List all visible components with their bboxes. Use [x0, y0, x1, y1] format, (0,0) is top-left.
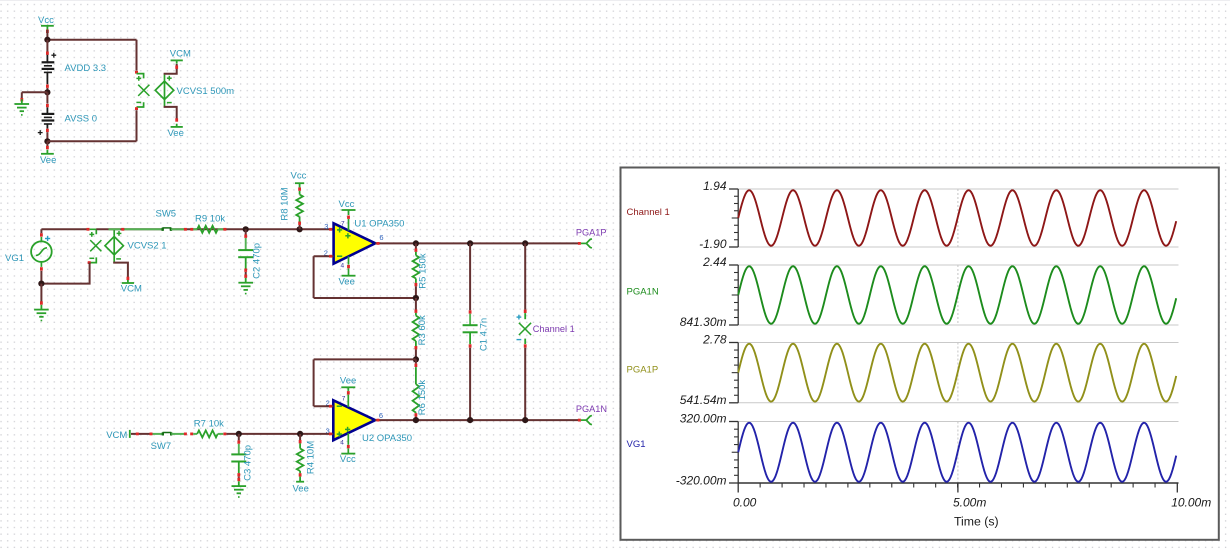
svg-text:PGA1P: PGA1P — [576, 228, 607, 238]
svg-text:VCVS2 1: VCVS2 1 — [128, 240, 167, 251]
svg-text:Channel 1: Channel 1 — [627, 207, 670, 218]
svg-text:Vcc: Vcc — [340, 454, 356, 465]
svg-text:VG1: VG1 — [627, 439, 646, 450]
svg-text:Vee: Vee — [339, 276, 355, 287]
svg-text:7: 7 — [341, 220, 345, 227]
svg-text:R8 10M: R8 10M — [280, 187, 291, 220]
svg-text:Vcc: Vcc — [38, 15, 54, 26]
svg-text:VG1: VG1 — [5, 253, 24, 264]
svg-text:VCM: VCM — [106, 430, 127, 441]
svg-text:0.00: 0.00 — [733, 495, 757, 509]
svg-text:1.94: 1.94 — [703, 179, 727, 193]
svg-text:541.54m: 541.54m — [680, 393, 727, 407]
svg-text:Vcc: Vcc — [291, 170, 307, 181]
svg-text:Channel 1: Channel 1 — [533, 324, 575, 334]
svg-text:PGA1P: PGA1P — [627, 365, 659, 376]
svg-text:Vcc: Vcc — [339, 199, 355, 210]
svg-text:U1 OPA350: U1 OPA350 — [354, 218, 404, 229]
svg-text:U2 OPA350: U2 OPA350 — [362, 433, 412, 444]
svg-text:5.00m: 5.00m — [953, 495, 986, 509]
svg-text:R6 150k: R6 150k — [417, 380, 428, 416]
svg-text:C3 470p: C3 470p — [242, 445, 253, 481]
svg-text:Time (s): Time (s) — [954, 515, 999, 529]
svg-text:VCVS1 500m: VCVS1 500m — [177, 86, 235, 97]
svg-text:-320.00m: -320.00m — [676, 473, 727, 487]
svg-text:4: 4 — [340, 440, 344, 447]
svg-text:2.44: 2.44 — [702, 255, 727, 269]
svg-text:R7 10k: R7 10k — [194, 418, 224, 429]
svg-text:6: 6 — [379, 411, 383, 420]
svg-text:R5 150k: R5 150k — [418, 253, 429, 289]
svg-text:VCM: VCM — [170, 48, 191, 59]
svg-text:C2 470p: C2 470p — [252, 243, 263, 279]
svg-text:SW7: SW7 — [151, 441, 172, 452]
svg-text:2.78: 2.78 — [702, 333, 727, 347]
svg-text:4: 4 — [341, 263, 345, 270]
svg-text:R3 60k: R3 60k — [417, 315, 428, 345]
svg-text:AVDD 3.3: AVDD 3.3 — [65, 63, 107, 74]
svg-text:7: 7 — [342, 396, 346, 403]
svg-text:3: 3 — [324, 222, 328, 231]
svg-text:Vee: Vee — [40, 155, 56, 166]
svg-text:841.30m: 841.30m — [680, 315, 727, 329]
svg-text:320.00m: 320.00m — [680, 412, 727, 426]
svg-text:VCM: VCM — [121, 284, 142, 295]
svg-text:PGA1N: PGA1N — [627, 287, 659, 298]
svg-text:AVSS 0: AVSS 0 — [65, 114, 98, 125]
svg-text:6: 6 — [379, 233, 383, 242]
svg-text:Vee: Vee — [168, 128, 184, 139]
svg-text:C1 4.7n: C1 4.7n — [479, 318, 490, 351]
svg-text:PGA1N: PGA1N — [576, 404, 607, 414]
svg-text:R9 10k: R9 10k — [195, 214, 225, 225]
svg-text:R4 10M: R4 10M — [305, 441, 316, 474]
svg-text:Vee: Vee — [293, 483, 309, 494]
svg-text:10.00m: 10.00m — [1171, 495, 1211, 509]
svg-text:Vee: Vee — [340, 376, 356, 387]
svg-text:SW5: SW5 — [156, 208, 177, 219]
svg-text:-1.90: -1.90 — [699, 237, 727, 251]
